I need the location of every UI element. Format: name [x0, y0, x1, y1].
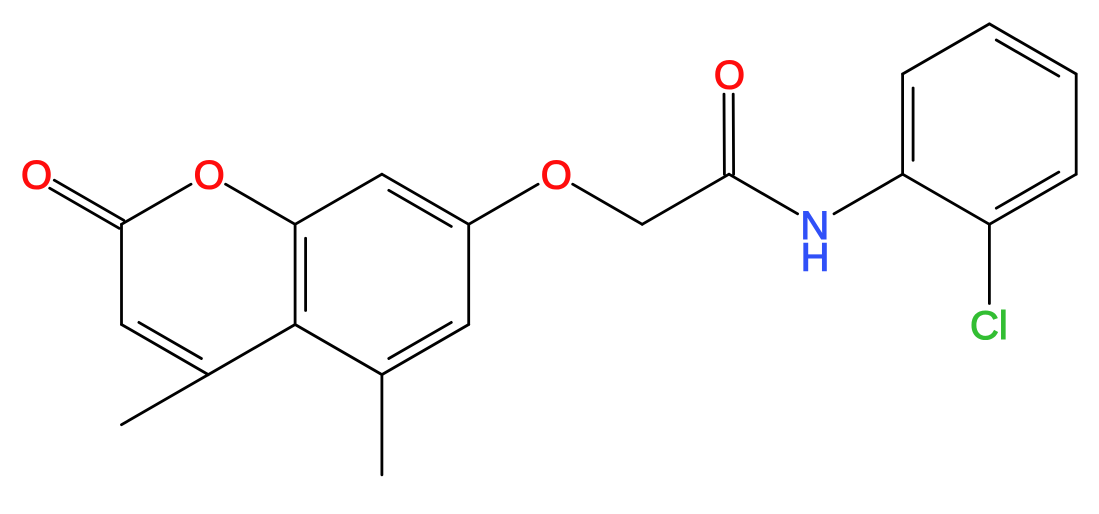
svg-text:O: O	[194, 154, 225, 198]
bond C5p-C6p	[903, 24, 990, 74]
bond C2-C3	[120, 224, 123, 324]
aromatic double bond C4a=C8a inner	[304, 238, 307, 310]
bond C2-O1	[122, 184, 192, 224]
bond C7-O ether	[469, 184, 538, 224]
double bond C3=C4 outer	[122, 325, 209, 375]
aromatic double bond C2p=C3p inner	[996, 172, 1059, 208]
bond C amide-N	[729, 174, 798, 214]
double bond C3=C4 inner	[139, 322, 202, 358]
aromatic double bond C4p=C5p outer	[989, 24, 1076, 74]
aromatic double bond C8=C7 outer	[382, 174, 469, 224]
svg-text:Cl: Cl	[970, 304, 1008, 348]
bond O1-C8a	[226, 184, 296, 224]
aromatic double bond C8=C7 inner	[389, 190, 452, 226]
svg-text:O: O	[541, 154, 572, 198]
aromatic double bond C4p=C5p inner	[996, 40, 1059, 76]
aromatic double bond C4a=C8a outer	[294, 224, 297, 324]
double bond C2=O carbonyl (lactone) line 1	[50, 188, 120, 228]
double bond C=O amide line 1	[723, 94, 726, 174]
bond C6-C7	[467, 224, 470, 324]
aromatic double bond C6p=C1p inner	[912, 88, 915, 160]
aromatic double bond C2p=C3p outer	[989, 174, 1076, 224]
bond N-C1 phenyl	[834, 174, 903, 214]
aromatic double bond C5=C6 outer	[382, 325, 469, 375]
aromatic double bond C6p=C1p outer	[901, 74, 904, 174]
bond C3p-C4p	[1075, 74, 1078, 174]
double bond C2=O carbonyl (lactone) line 2	[54, 180, 124, 220]
svg-text:H: H	[801, 235, 830, 279]
svg-text:O: O	[21, 154, 52, 198]
bond O ether-CH2	[573, 184, 643, 224]
bond C4a-C5	[295, 325, 382, 375]
bond C5-methyl	[380, 375, 383, 475]
svg-text:O: O	[714, 54, 745, 98]
double bond C=O amide line 2	[732, 94, 735, 174]
bond CH2-C amide	[642, 174, 729, 224]
bond C8a-C8	[295, 174, 382, 224]
aromatic double bond C5=C6 inner	[389, 322, 452, 358]
bond C4-methyl	[122, 375, 209, 425]
bond C1p-C2p	[903, 174, 990, 224]
bond C4-C4a	[208, 325, 295, 375]
bond C2p-Cl	[988, 224, 991, 303]
